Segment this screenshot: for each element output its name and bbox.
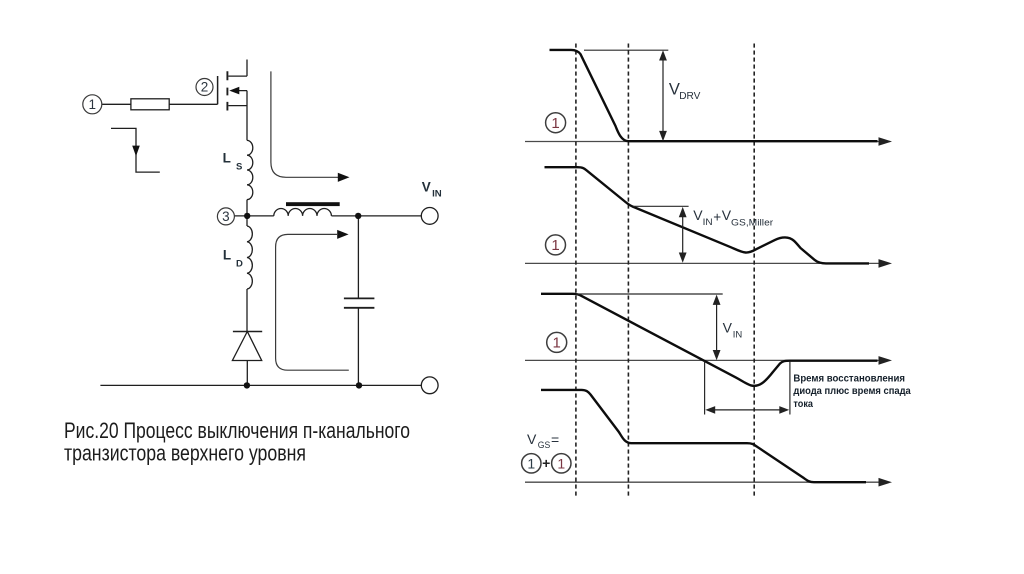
svg-text:диода плюс время спада: диода плюс время спада — [793, 386, 911, 397]
svg-text:тока: тока — [793, 399, 813, 410]
svg-text:3: 3 — [222, 209, 230, 224]
svg-text:1: 1 — [527, 455, 535, 471]
svg-text:IN: IN — [733, 329, 743, 340]
svg-text:L: L — [223, 150, 231, 165]
svg-text:1: 1 — [551, 115, 559, 132]
svg-text:=: = — [551, 432, 559, 448]
svg-text:1: 1 — [551, 237, 559, 254]
svg-text:Рис.20 Процесс выключения п-ка: Рис.20 Процесс выключения п-канального — [64, 418, 410, 443]
svg-text:GS,Miller: GS,Miller — [731, 218, 773, 229]
svg-text:V: V — [723, 319, 733, 335]
svg-text:V: V — [527, 431, 537, 447]
svg-text:IN: IN — [703, 217, 713, 228]
svg-text:D: D — [236, 259, 243, 270]
svg-text:+: + — [542, 455, 550, 471]
svg-text:1: 1 — [89, 97, 97, 112]
svg-text:DRV: DRV — [679, 90, 700, 102]
svg-text:L: L — [223, 248, 231, 263]
svg-text:2: 2 — [201, 80, 209, 95]
svg-text:S: S — [236, 161, 242, 172]
svg-text:IN: IN — [432, 189, 442, 199]
svg-text:1: 1 — [557, 455, 565, 471]
svg-text:V: V — [422, 179, 431, 194]
svg-text:GS: GS — [538, 440, 551, 451]
svg-text:+: + — [713, 209, 721, 224]
svg-text:1: 1 — [553, 335, 561, 352]
svg-text:Время восстановления: Время восстановления — [793, 373, 905, 384]
svg-text:транзистора верхнего уровня: транзистора верхнего уровня — [64, 441, 306, 466]
